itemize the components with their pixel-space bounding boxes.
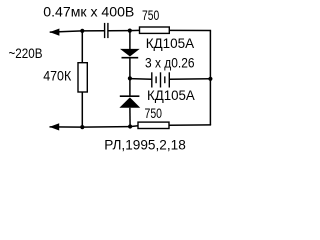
fusible link E1 bar 2 short [155, 76, 157, 83]
wire: capacitor to node B [109, 30, 130, 32]
capacitor C1: right plate [107, 23, 109, 38]
resistor R1 470K body (vertical) [78, 63, 87, 92]
svg-text:~220В: ~220В [9, 45, 43, 61]
wire: VD2 anode to bottom rail [129, 108, 131, 127]
wire: R1 bottom to bottom rail [81, 92, 83, 127]
svg-text:750: 750 [142, 7, 159, 23]
svg-text:КД105А: КД105А [147, 87, 195, 103]
fusible link E1 bar 5 tall [168, 72, 170, 87]
node D2: junction bottom rail with VD2 [128, 124, 132, 128]
svg-text:0.47мк x 400В: 0.47мк x 400В [43, 4, 134, 20]
diode VD1 КД105А (cathode down): triangle [120, 49, 140, 57]
resistor R2 750 (top) body [140, 27, 170, 33]
wire: R2 to top-right corner [169, 29, 211, 31]
wire: top rail from left arrow to capacitor [50, 31, 105, 32]
diode VD2: triangle [119, 97, 140, 107]
node C: junction of diode cathodes and fusible link [128, 76, 132, 80]
svg-text:750: 750 [145, 105, 163, 121]
wire: right rail vertical [209, 31, 211, 126]
wire: node B down to diode VD1 [129, 31, 131, 51]
diode VD1: cathode bar [122, 57, 139, 59]
wire: R3 to bottom-right corner [169, 124, 211, 126]
node E: junction on right rail [208, 77, 212, 81]
diode VD2 КД105А (cathode up): cathode bar [120, 95, 140, 97]
svg-text:КД105А: КД105А [146, 35, 195, 51]
svg-text:РЛ,1995,2,18: РЛ,1995,2,18 [104, 137, 186, 153]
svg-text:3 х д0.26: 3 х д0.26 [145, 55, 195, 71]
capacitor C1 0.47mk x 400V: left plate [104, 23, 106, 38]
mains input arrow top (points left) [50, 29, 60, 36]
node D1: junction bottom rail with R1 [80, 125, 84, 129]
wire: node A down to resistor R1 [81, 31, 83, 63]
wire: node C to fusible link E1 [130, 78, 152, 81]
fusible link E1 bar 4 short [164, 76, 166, 83]
node A: junction of top rail and R1 branch [80, 29, 84, 33]
resistor R3 750 (bottom) body [138, 122, 169, 128]
wire: bottom rail from left arrow to node D2 [50, 126, 139, 127]
wire: fusible link E1 to right rail node E [169, 78, 210, 80]
wire: VD1 cathode to node C [129, 58, 131, 78]
mains input arrow bottom (points left) [50, 123, 60, 130]
node B: junction top of diode VD1 chain [128, 29, 132, 33]
fusible link E1 bar 3 tall [160, 72, 162, 87]
svg-text:470К: 470К [43, 68, 72, 84]
wire: node B to resistor R2 750 [130, 29, 140, 31]
wire: node C down to diode VD2 [129, 78, 131, 96]
fusible link E1 (3 x wire d0.26) bar 1 tall [151, 72, 153, 87]
